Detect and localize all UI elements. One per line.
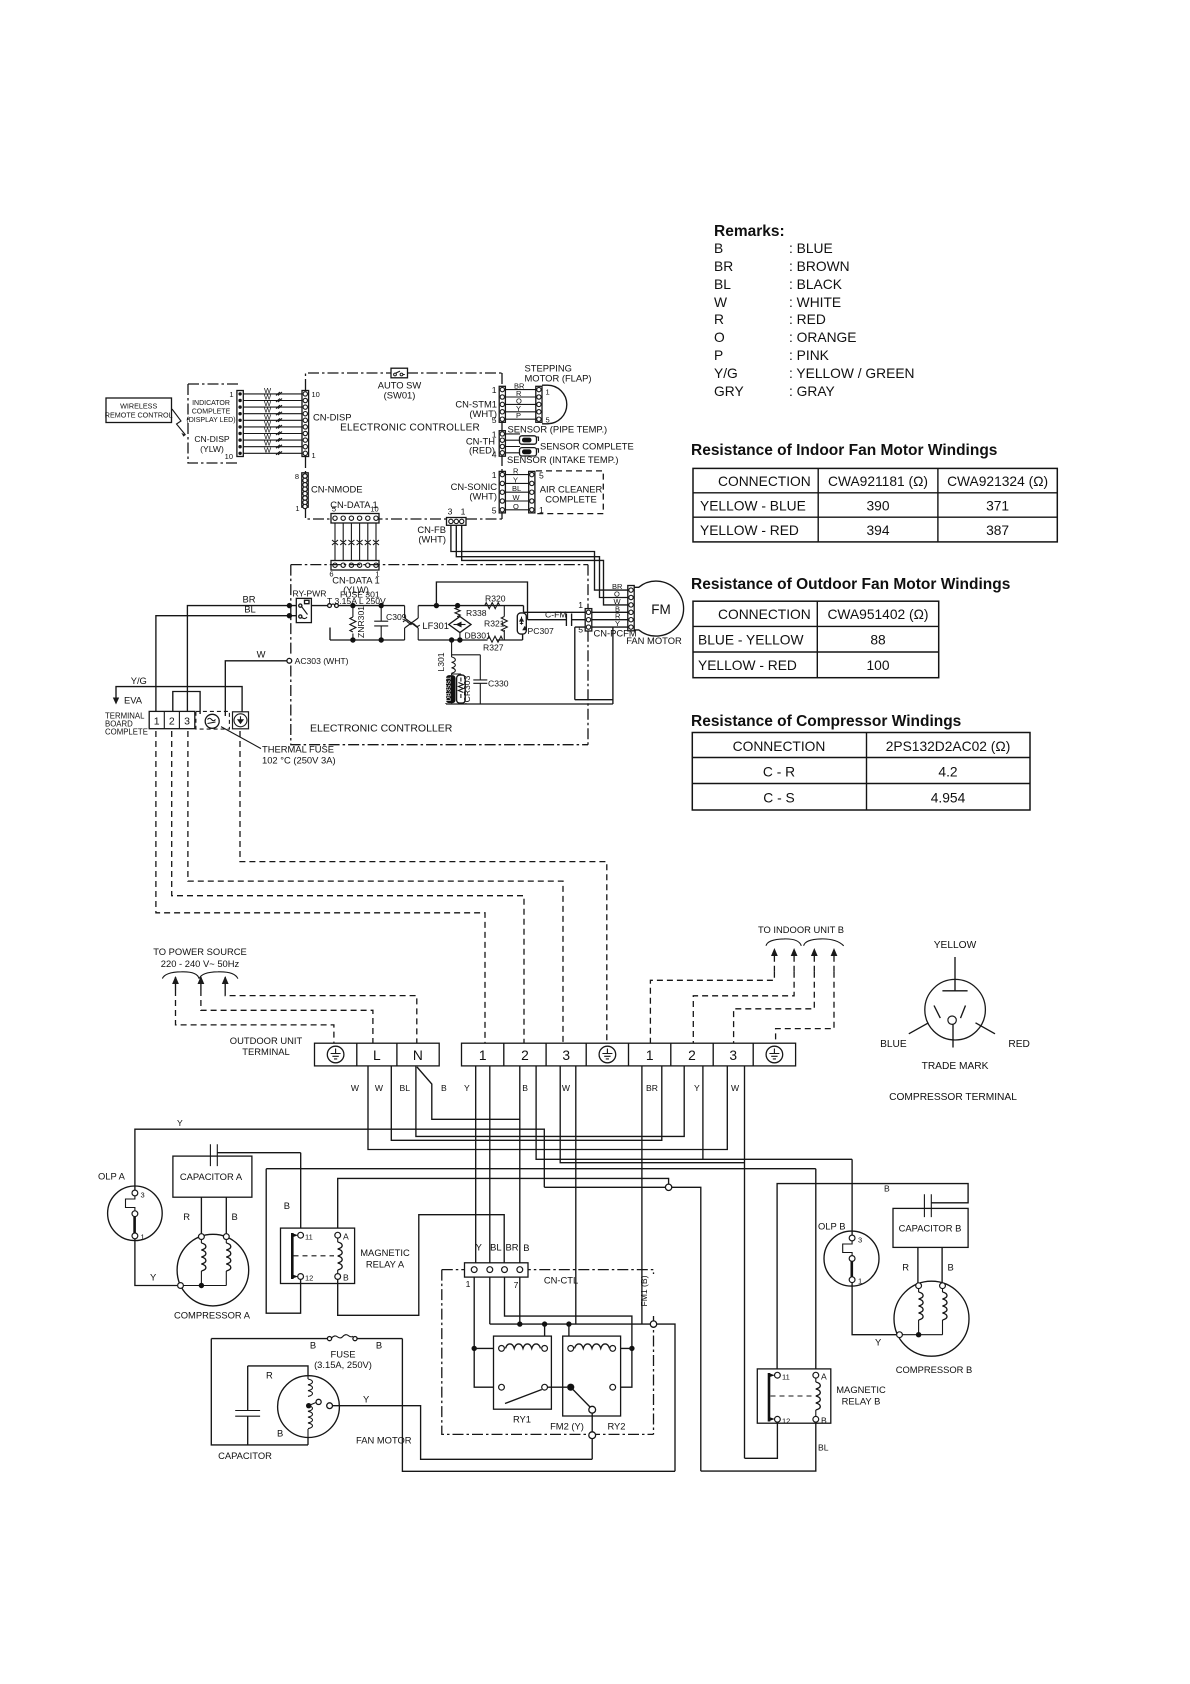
wire W / AC303 [225,649,348,717]
wire left loop to capacitor [211,1339,308,1445]
svg-text:3: 3 [184,716,190,728]
svg-text:100: 100 [866,658,889,673]
capacitor C-FM [528,610,586,627]
svg-text:ELECTRONIC CONTROLLER: ELECTRONIC CONTROLLER [340,423,480,434]
svg-text:CONNECTION: CONNECTION [718,607,811,622]
svg-text:220 - 240 V~ 50Hz: 220 - 240 V~ 50Hz [161,958,240,969]
connector CN-DATA 1 (top) [330,499,379,523]
svg-text:A: A [343,1232,349,1242]
svg-text:3: 3 [448,507,453,517]
svg-text:SENSOR (INTAKE TEMP.): SENSOR (INTAKE TEMP.) [507,454,618,465]
magnetic relay A [281,1228,410,1283]
wire 2b right Y riser [702,1066,704,1159]
dashed wire 2 [172,731,524,1043]
wire RY1 to RY2 contact [548,1386,568,1388]
svg-text:C330: C330 [488,679,509,689]
capacitor A [173,1144,301,1197]
svg-text:(SW01): (SW01) [384,390,416,401]
wire fuse right down to bottom run [402,1339,675,1472]
svg-text:(DISPLAY LED): (DISPLAY LED) [186,417,235,424]
svg-text:CN-NMODE: CN-NMODE [311,484,363,495]
svg-text:RELAY B: RELAY B [842,1396,881,1407]
svg-text:W: W [257,649,266,660]
wire L-left [368,1066,727,1150]
svg-text:(RED): (RED) [469,445,495,456]
svg-text:4.954: 4.954 [931,791,966,806]
wire relay A pinB loop [338,1215,505,1316]
svg-text:INDICATOR: INDICATOR [192,400,230,407]
photocoupler PC307 [517,613,554,636]
svg-text:B: B [277,1428,283,1439]
svg-text:5: 5 [492,506,497,516]
svg-text:1: 1 [461,507,466,517]
wire cap B B stub [942,1247,954,1282]
svg-text:BL: BL [490,1242,501,1253]
remarks legend [714,223,915,399]
svg-text:FAN MOTOR: FAN MOTOR [626,635,682,646]
svg-text:CR303: CR303 [462,675,472,702]
compressor A [174,1234,251,1321]
svg-text:W: W [351,1083,360,1093]
svg-text:RELAY A: RELAY A [366,1259,405,1270]
svg-text:O: O [714,330,725,345]
wire cap B R stub [902,1247,918,1282]
capacitor C330 [452,655,509,704]
wire 3a right [575,1066,577,1324]
wire 2a right W [536,1066,852,1159]
wires CN-STM1 to motor [505,390,535,420]
svg-text:Remarks:: Remarks: [714,223,785,240]
svg-text:C309: C309 [386,612,407,622]
svg-text:W: W [375,1083,384,1093]
svg-text:Y: Y [694,1083,700,1093]
svg-text:ZNR301: ZNR301 [356,606,366,638]
svg-text:1: 1 [312,451,316,460]
svg-text:CWA951402 (Ω): CWA951402 (Ω) [827,607,928,622]
connector CN-TH [466,430,506,460]
svg-text:Y/G: Y/G [131,675,147,686]
svg-text:T 3.15A L 250V: T 3.15A L 250V [327,596,386,606]
svg-text:B: B [948,1262,954,1273]
red lead [976,1023,996,1034]
svg-text:11: 11 [782,1373,790,1382]
svg-text:MAGNETIC: MAGNETIC [836,1384,886,1395]
wire bus to RY2 coil left [568,1324,570,1345]
svg-text:B: B [232,1211,238,1222]
svg-text:FM2 (Y): FM2 (Y) [550,1421,584,1432]
wire Y from OLP A [135,1118,544,1193]
wire B to relay A pin11 [284,1153,301,1233]
resistor R320 [485,594,506,609]
wire N bridge B [417,1066,520,1119]
svg-text:Y: Y [476,1242,483,1253]
svg-text:YELLOW - RED: YELLOW - RED [700,523,799,538]
capacitor C309 [374,603,407,643]
svg-text:10: 10 [225,452,233,461]
wire relay B pinB BL [701,1422,829,1471]
svg-text:387: 387 [986,523,1009,538]
svg-text:MOTOR (FLAP): MOTOR (FLAP) [525,373,592,384]
svg-text:COMPRESSOR TERMINAL: COMPRESSOR TERMINAL [889,1092,1017,1103]
svg-text:3: 3 [562,1048,570,1063]
wires CN-FB down to FM pins [451,525,628,605]
svg-text:W: W [264,445,272,454]
svg-text:DB3SS1: DB3SS1 [446,676,453,701]
top rail right [418,603,523,612]
wire N BL [416,1066,684,1137]
svg-text:A: A [821,1372,827,1382]
svg-text:R: R [513,467,519,476]
svg-text:COMPRESSOR B: COMPRESSOR B [896,1364,973,1375]
wire B to relay B pin11 and capacitor B [777,1184,968,1376]
svg-text:1: 1 [154,716,160,728]
svg-text:B: B [376,1340,382,1351]
to indoor unit B arrows [650,924,844,1043]
svg-text:OUTDOOR UNIT: OUTDOOR UNIT [230,1035,303,1046]
svg-text:: GRAY: : GRAY [789,384,835,399]
connector CN-DISP [302,390,352,460]
magnetic relay B [757,1369,886,1426]
relay RY1 [494,1336,552,1424]
wire bundle CN-DATA1 twisted pair [332,523,379,561]
svg-text:88: 88 [870,633,886,648]
wires CN-SONIC to air cleaner [505,475,528,510]
inductor L301 [436,640,455,673]
svg-text:C-FM: C-FM [545,610,566,620]
table: resistance of indoor fan motor windings [691,442,1057,542]
svg-text:REMOTE CONTROL: REMOTE CONTROL [105,411,173,420]
bridge DB301 [449,617,491,641]
svg-text:WIRELESS: WIRELESS [120,402,157,411]
svg-text:COMPLETE: COMPLETE [545,494,597,505]
OLP B [818,1221,879,1287]
svg-text:102 °C (250V 3A): 102 °C (250V 3A) [262,755,336,766]
bottom bus of L301 section [446,702,613,705]
svg-text:R: R [902,1262,909,1273]
wire BR [187,594,296,712]
wire BL [156,604,296,712]
svg-text:B: B [310,1340,316,1351]
compressor terminal trademark [880,940,1030,1103]
svg-text:10: 10 [312,390,320,399]
svg-text:394: 394 [866,523,889,538]
terminal wire labels [351,1083,740,1093]
wire B pin down to bus [519,1277,521,1324]
svg-text:RY-PWR: RY-PWR [293,589,327,599]
wire row5 R to FM [592,619,628,621]
connector CN-DATA 1 (YLW) [329,561,379,596]
to power source arrows [153,946,417,1043]
wire cap A B stub [226,1197,237,1234]
wire L-right [391,1066,662,1140]
svg-text:YELLOW - BLUE: YELLOW - BLUE [700,499,806,514]
svg-text:R338: R338 [466,608,487,618]
resistor R321 [484,606,507,640]
svg-text:W: W [562,1083,571,1093]
svg-text:B: B [522,1083,528,1093]
svg-text:TRADE MARK: TRADE MARK [922,1061,989,1072]
wire junction row [544,1187,701,1471]
svg-text:3: 3 [858,1236,862,1245]
svg-text:GRY: GRY [714,384,744,399]
wire FM2 down through box edge [589,1413,596,1459]
OLP A [98,1171,162,1242]
svg-text:: WHITE: : WHITE [789,295,841,310]
resistor R327 [483,636,504,652]
svg-text:TERMINAL: TERMINAL [242,1046,289,1057]
bottom rail right [418,634,522,643]
svg-text:R321: R321 [484,619,505,629]
svg-text:AC303 (WHT): AC303 (WHT) [295,656,349,666]
svg-text:1: 1 [479,1048,487,1063]
svg-text:CAPACITOR B: CAPACITOR B [899,1223,962,1234]
svg-text:(WHT): (WHT) [469,408,497,419]
svg-text:2: 2 [169,716,175,728]
svg-text:5: 5 [332,505,336,514]
svg-text:390: 390 [866,499,889,514]
svg-text:Resistance of Indoor Fan Motor: Resistance of Indoor Fan Motor Windings [691,442,997,459]
wire OLP B riser [851,1159,853,1235]
svg-text:4.2: 4.2 [938,765,957,780]
capacitor (fan) [218,1366,272,1461]
wire fan Y to FM2 [333,1394,593,1460]
svg-text:1: 1 [466,1279,471,1289]
svg-text:CN-DISP: CN-DISP [313,412,352,423]
svg-text:TO INDOOR UNIT B: TO INDOOR UNIT B [758,924,844,935]
svg-text:Y: Y [615,619,620,628]
svg-text:10: 10 [370,505,378,514]
svg-text:BL: BL [244,604,255,615]
table: resistance of compressor windings [691,713,1030,810]
svg-text:5: 5 [578,625,583,635]
indicator complete (display led) dash-dot box [186,384,239,463]
wire bundle indicator to CN-DISP with W labels [243,386,302,455]
wire BR pin down [505,1277,635,1387]
auto sw SW01 [378,368,422,400]
svg-text:2PS132D2AC02 (Ω): 2PS132D2AC02 (Ω) [886,739,1011,754]
svg-text:1: 1 [546,388,550,397]
svg-text:OLP A: OLP A [98,1171,126,1182]
svg-text:3: 3 [729,1048,737,1063]
compressor B [894,1281,972,1375]
connector CN-PCFM [578,600,637,639]
svg-text:Y: Y [513,475,518,484]
sensor complete (pipe + intake sensors) [505,424,633,466]
svg-text:BL: BL [512,484,521,493]
connector CN-CTL [465,1242,579,1291]
wire cap A R stub [183,1197,201,1234]
svg-text:Y/G: Y/G [714,366,738,381]
fan motor FM (outdoor) [626,581,683,646]
svg-text:5: 5 [539,471,544,481]
stepping motor (flap) [505,363,591,425]
wire 1a left to CN-CTL Y [475,1066,477,1267]
svg-text:SENSOR COMPLETE: SENSOR COMPLETE [540,441,634,452]
FM wire labels [612,582,623,628]
svg-text:: YELLOW / GREEN: : YELLOW / GREEN [789,366,915,381]
svg-text:Resistance of Compressor Windi: Resistance of Compressor Windings [691,713,961,730]
dashed wire 1 [156,731,485,1043]
wire riser to C-FM row [436,582,527,620]
svg-text:BR: BR [505,1242,518,1253]
svg-text:BLUE: BLUE [880,1039,907,1050]
svg-text:11: 11 [305,1233,313,1242]
svg-text:CONNECTION: CONNECTION [718,474,811,489]
svg-text:B: B [884,1184,890,1194]
svg-text:OLP B: OLP B [818,1221,845,1232]
svg-text:Y: Y [150,1272,157,1283]
svg-text:(WHT): (WHT) [469,491,497,502]
svg-text:7: 7 [514,1280,519,1290]
svg-text:DB301: DB301 [465,631,491,641]
svg-text:: BLACK: : BLACK [789,277,843,292]
line filter LF301 [403,606,449,640]
svg-text:B: B [523,1242,529,1253]
svg-text:: PINK: : PINK [789,348,830,363]
svg-text:W: W [731,1083,740,1093]
svg-text:SENSOR (PIPE TEMP.): SENSOR (PIPE TEMP.) [508,424,608,435]
electronic controller (indoor) dash-dot box [306,373,503,519]
relay RY-PWR [293,589,327,623]
svg-text:R: R [266,1370,273,1381]
svg-text:P: P [714,348,723,363]
wire 3a left [560,1066,744,1163]
svg-text:1: 1 [141,1233,145,1242]
svg-text:BR: BR [714,259,733,274]
capacitor B [893,1194,968,1247]
terminal board complete [105,711,195,736]
top rail [338,605,404,607]
svg-text:Y: Y [875,1337,882,1348]
svg-text:MAGNETIC: MAGNETIC [360,1247,410,1258]
svg-text:RY2: RY2 [607,1421,625,1432]
svg-text:BL: BL [714,277,731,292]
connector CN-FB [417,507,466,545]
connector CN-SONIC [451,470,506,516]
bus wire [490,1321,675,1471]
svg-text:TO POWER SOURCE: TO POWER SOURCE [153,946,247,957]
wire 1b left [641,1066,643,1324]
svg-text:L301: L301 [436,652,446,671]
svg-text:CWA921324 (Ω): CWA921324 (Ω) [947,474,1048,489]
svg-text:COMPRESSOR A: COMPRESSOR A [174,1310,251,1321]
table: resistance of outdoor fan motor windings [691,576,1010,678]
wire BL pin down to bus [489,1277,491,1324]
svg-text:LF301: LF301 [422,620,449,631]
svg-text:8: 8 [295,472,299,481]
component DB3SS1 [446,673,456,703]
svg-text:O: O [513,502,519,511]
svg-text:3: 3 [141,1191,145,1200]
svg-text:BLUE - YELLOW: BLUE - YELLOW [698,633,804,648]
svg-text:BL: BL [399,1083,410,1093]
svg-text:YELLOW: YELLOW [934,940,977,951]
svg-text:C - S: C - S [763,791,794,806]
svg-text:12: 12 [782,1417,790,1426]
fan motor (lower) [277,1376,412,1446]
svg-text:CAPACITOR A: CAPACITOR A [180,1171,243,1182]
junction circle [665,1184,671,1190]
bottom rail left [330,628,405,641]
wire row6 Y to FM [575,627,628,704]
svg-text:L: L [373,1048,381,1063]
wire 3b right to relay B pin12 [744,1066,746,1458]
wire row4 B to FM [524,611,629,613]
svg-text:C - R: C - R [763,765,795,780]
svg-text:1: 1 [539,505,544,515]
svg-text:1: 1 [492,470,497,480]
CN-CTL dash-dot box [442,1270,654,1435]
bottom lead [952,1024,954,1047]
wire terminal2 to thermal fuse [173,692,200,715]
svg-text:PC307: PC307 [528,626,554,636]
air cleaner complete [505,467,603,515]
wire 1a right to CN-CTL BL [489,1066,491,1267]
fuse 301 [311,590,386,608]
svg-text:EVA: EVA [124,695,143,706]
varistor ZNR301 [350,603,366,643]
svg-text:2: 2 [688,1048,696,1063]
wire OLP A pin1 to compressor Y [135,1239,177,1286]
svg-text:B: B [821,1416,827,1426]
svg-text:: BROWN: : BROWN [789,259,850,274]
svg-text:ELECTRONIC CONTROLLER: ELECTRONIC CONTROLLER [310,723,453,735]
indicator connector (filled pins) [225,390,244,461]
svg-text:FAN MOTOR: FAN MOTOR [356,1435,412,1446]
svg-text:Y: Y [177,1118,183,1128]
svg-text:: BLUE: : BLUE [789,241,833,256]
component CR303 [452,674,472,703]
svg-text:BR: BR [646,1083,658,1093]
svg-text:R: R [183,1211,190,1222]
wire B riser to CN-CTL B [519,1119,521,1266]
connector CN-NMODE [295,472,363,513]
svg-text:P: P [516,411,521,420]
wire relay A pin12 loop [266,1169,300,1314]
svg-text:(WHT): (WHT) [418,534,446,545]
svg-text:FUSE: FUSE [330,1349,355,1360]
svg-text:B: B [714,241,723,256]
relay RY2 [550,1336,625,1431]
svg-text:FM: FM [651,602,671,617]
svg-text:COMPLETE: COMPLETE [192,409,231,416]
svg-text:W: W [513,493,521,502]
svg-text:CN-DISP: CN-DISP [194,434,230,444]
svg-text:CONNECTION: CONNECTION [733,739,826,754]
svg-text:Resistance of Outdoor Fan Moto: Resistance of Outdoor Fan Motor Windings [691,576,1010,593]
svg-text:Y: Y [464,1083,470,1093]
svg-text:1: 1 [858,1277,862,1286]
svg-text:: ORANGE: : ORANGE [789,330,856,345]
svg-text:: RED: : RED [789,312,826,327]
wire Y pin down to RY1 [472,1277,502,1387]
svg-text:1: 1 [578,600,583,610]
svg-text:B: B [343,1273,349,1283]
svg-text:B: B [441,1083,447,1093]
svg-text:RY1: RY1 [513,1414,531,1425]
svg-text:Y: Y [363,1394,370,1405]
resistor R338 [455,606,487,618]
svg-text:371: 371 [986,499,1009,514]
blue lead [909,1023,929,1034]
svg-text:(YLW): (YLW) [200,444,224,454]
svg-text:BL: BL [818,1443,829,1453]
dashed wire earth [240,731,607,1043]
svg-text:1: 1 [295,504,299,513]
svg-text:1: 1 [492,385,497,395]
svg-text:1: 1 [229,390,233,399]
wire relay A pinA to junction [338,1178,669,1235]
